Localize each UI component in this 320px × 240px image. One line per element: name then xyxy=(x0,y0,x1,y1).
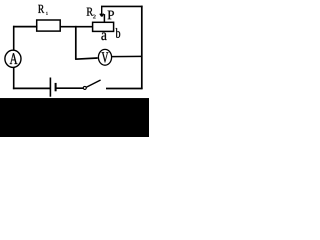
label R2 xyxy=(87,8,93,16)
wire right rail xyxy=(141,6,143,90)
label a xyxy=(101,32,106,40)
wire battery to switch xyxy=(57,87,84,89)
wire voltmeter branch horizontal xyxy=(75,58,98,59)
switch S1 xyxy=(83,80,100,89)
wire slider to right rail (top) xyxy=(101,5,143,7)
wire top-left horizontal xyxy=(13,26,37,28)
label b xyxy=(116,28,121,38)
wire bottom right xyxy=(106,88,143,90)
label P xyxy=(108,11,114,20)
wire left rail lower xyxy=(13,67,15,89)
slider arrow P xyxy=(100,6,105,23)
potentiometer R2 xyxy=(93,22,114,31)
battery BT1 xyxy=(50,78,55,97)
wire voltmeter to right rail xyxy=(112,55,143,57)
wire bottom left xyxy=(13,87,51,89)
wire R1 to R2 xyxy=(60,26,92,28)
label R1 xyxy=(38,5,44,13)
wire left rail upper xyxy=(13,26,15,51)
ammeter A1 xyxy=(5,50,21,67)
voltmeter V1 xyxy=(98,49,111,65)
resistor R1 xyxy=(37,20,61,31)
black bar xyxy=(0,98,149,137)
wire voltmeter branch vertical xyxy=(75,26,77,59)
